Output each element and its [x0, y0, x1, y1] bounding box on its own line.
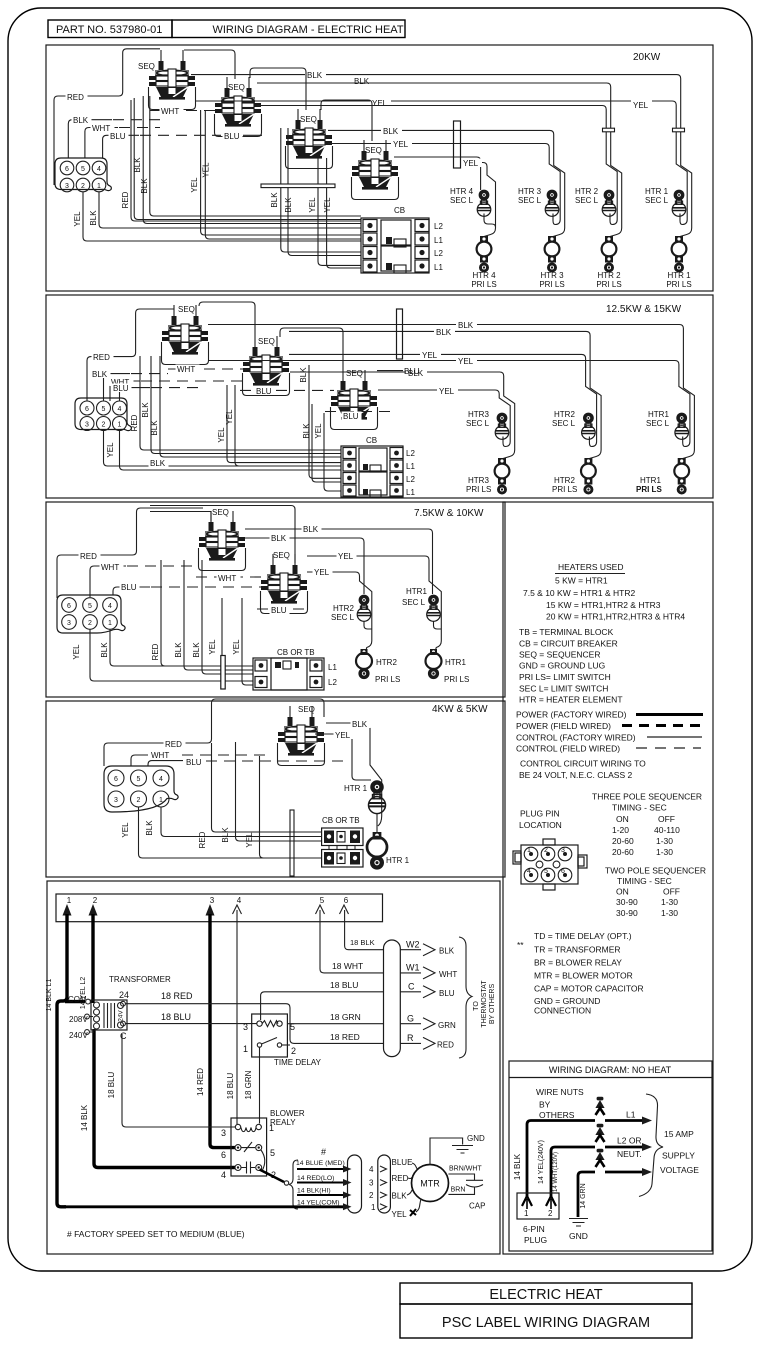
svg-text:PART NO. 537980-01: PART NO. 537980-01 [56, 24, 162, 36]
svg-text:YEL: YEL [422, 351, 438, 360]
wire nut 3 [595, 1149, 604, 1167]
svg-text:18 BLK: 18 BLK [350, 938, 375, 947]
wire YEL pair seq3 down to CB L1 [318, 158, 361, 265]
svg-text:YEL: YEL [439, 387, 455, 396]
svg-text:1-20: 1-20 [612, 825, 629, 835]
svg-text:18 BLU: 18 BLU [107, 1071, 116, 1098]
svg-text:CAP = MOTOR CAPACITOR: CAP = MOTOR CAPACITOR [534, 984, 644, 994]
svg-text:24V: 24V [118, 1010, 125, 1022]
svg-text:20-60: 20-60 [612, 836, 634, 846]
svg-text:BLK: BLK [92, 370, 108, 379]
svg-text:18 BLU: 18 BLU [161, 1012, 191, 1022]
svg-text:HTR1: HTR1 [445, 658, 466, 667]
svg-text:1-30: 1-30 [661, 897, 678, 907]
svg-text:PLUG: PLUG [524, 1235, 547, 1245]
svg-text:HTR1: HTR1 [648, 410, 669, 419]
wire G line TD5 to thermostat [287, 1023, 383, 1025]
svg-text:SEC L: SEC L [466, 419, 490, 428]
svg-text:OTHERS: OTHERS [539, 1110, 575, 1120]
wire seq1 to seq2 cascade [184, 50, 235, 79]
ground symbol [452, 1146, 473, 1154]
svg-text:YEL: YEL [633, 101, 649, 110]
svg-text:GND: GND [569, 1231, 588, 1241]
svg-text:1: 1 [159, 797, 163, 804]
heater HTR1 PRI LS [672, 236, 687, 273]
svg-text:BLK: BLK [392, 1192, 408, 1201]
svg-text:20 KW = HTR1,HTR2,HTR3 & HTR4: 20 KW = HTR1,HTR2,HTR3 & HTR4 [546, 612, 685, 622]
svg-text:CONTROL (FIELD WIRED): CONTROL (FIELD WIRED) [516, 744, 620, 754]
svg-text:YEL: YEL [190, 177, 199, 193]
svg-text:6-PIN: 6-PIN [523, 1224, 545, 1234]
svg-text:SEC L= LIMIT SWITCH: SEC L= LIMIT SWITCH [519, 684, 608, 694]
wire YEL vertical 2 to CB L1 [205, 110, 361, 239]
svg-text:20KW: 20KW [633, 52, 661, 63]
wire YEL vertical pair to CB L1 [201, 110, 361, 235]
svg-text:HTR2: HTR2 [376, 658, 397, 667]
wire BLK from plug pin1 [99, 192, 361, 228]
heater HTR1 PRI LS [367, 832, 387, 870]
svg-text:18 GRN: 18 GRN [244, 1070, 253, 1099]
wire YEL run to HTR1 [195, 101, 687, 225]
svg-text:**: ** [517, 940, 524, 950]
heater HTR2 PRI LS [581, 458, 596, 495]
vertical splice bars [221, 656, 225, 690]
svg-text:18 GRN: 18 GRN [330, 1012, 361, 1022]
svg-text:PRI LS: PRI LS [539, 280, 564, 289]
wire 14 BLK L1 from pin 1 [57, 914, 67, 1207]
svg-text:TB = TERMINAL BLOCK: TB = TERMINAL BLOCK [519, 627, 614, 637]
svg-text:SEQ: SEQ [300, 115, 317, 124]
wire nut 2 [595, 1124, 604, 1142]
plug pin 1 fork [522, 1196, 532, 1206]
svg-text:HTR 1: HTR 1 [386, 856, 410, 865]
wire WHT dashed field [127, 565, 196, 567]
svg-text:4: 4 [369, 1165, 374, 1174]
svg-text:1-30: 1-30 [661, 908, 678, 918]
svg-text:SEQ = SEQUENCER: SEQ = SEQUENCER [519, 650, 600, 660]
wire BLU dashed field [140, 134, 221, 136]
wire RED vertical to CB [212, 743, 322, 832]
wire BLU dashed to SEQ3 [325, 411, 390, 413]
wire L1 from plug pin 1 [527, 1121, 595, 1199]
svg-text:YEL: YEL [323, 197, 332, 213]
svg-text:14 BLUE (MED): 14 BLUE (MED) [296, 1160, 345, 1167]
svg-text:5: 5 [88, 603, 92, 610]
wire BLK run to HTR3 [328, 130, 565, 236]
section 2 box (12.5KW and 15KW) [46, 295, 713, 498]
svg-text:TIMING - SEC: TIMING - SEC [617, 876, 672, 886]
wire BLK from plug pin1 [161, 807, 322, 837]
svg-text:MTR: MTR [420, 1179, 440, 1189]
wire YEL to HTR1 SEC [315, 734, 371, 780]
svg-text:YEL: YEL [392, 1210, 408, 1219]
wire seq3 to seq4 cascade [321, 100, 372, 141]
svg-text:BRN/WHT: BRN/WHT [449, 1166, 482, 1173]
svg-text:HTR 1: HTR 1 [667, 271, 691, 280]
svg-text:BLK: BLK [299, 367, 308, 383]
svg-text:CB OR TB: CB OR TB [322, 816, 360, 825]
svg-text:SEQ: SEQ [346, 369, 363, 378]
wire BLK seq1 to CB 2 [160, 356, 341, 457]
svg-text:14 BLK: 14 BLK [513, 1153, 522, 1180]
wire HTR4 LS hook [484, 214, 496, 228]
svg-text:18 RED: 18 RED [330, 1032, 360, 1042]
wire BLK dashed field [113, 119, 165, 121]
wire seq2 to seq3 cascade [280, 328, 343, 370]
svg-text:PRI LS: PRI LS [375, 675, 400, 684]
svg-text:14 RED: 14 RED [196, 1068, 205, 1096]
svg-text:BY: BY [539, 1100, 551, 1110]
section 3 box (7.5KW and 10KW) [46, 502, 505, 697]
svg-text:PRI LS: PRI LS [596, 280, 621, 289]
svg-text:W2: W2 [406, 940, 420, 950]
svg-text:GND = GROUND: GND = GROUND [534, 996, 600, 1006]
wire BLK run to HTR3 [290, 372, 515, 459]
svg-text:6: 6 [221, 1150, 226, 1160]
svg-text:3: 3 [210, 896, 215, 905]
svg-text:YEL: YEL [121, 822, 130, 838]
svg-text:BRN: BRN [451, 1187, 466, 1194]
svg-text:PRI LS: PRI LS [666, 280, 691, 289]
svg-text:CONTROL CIRCUIT WIRING TO: CONTROL CIRCUIT WIRING TO [520, 759, 646, 769]
svg-text:YEL: YEL [314, 568, 330, 577]
svg-text:SEQ: SEQ [273, 551, 290, 560]
wire YEL from plug pin2 [83, 192, 361, 241]
wire WHT plug pigtail [131, 755, 148, 766]
svg-text:#: # [321, 1147, 326, 1157]
svg-text:18 BLU: 18 BLU [226, 1072, 235, 1099]
wire C line to thermostat [261, 992, 384, 1020]
svg-text:VOLTAGE: VOLTAGE [660, 1165, 699, 1175]
svg-text:HTR2: HTR2 [333, 604, 354, 613]
wire WHT dashed field [119, 127, 160, 129]
svg-text:2: 2 [137, 797, 141, 804]
svg-text:WIRING DIAGRAM: NO HEAT: WIRING DIAGRAM: NO HEAT [549, 1065, 672, 1075]
wire YEL seq2 to CB [227, 385, 341, 463]
svg-text:CB = CIRCUIT BREAKER: CB = CIRCUIT BREAKER [519, 639, 618, 649]
svg-text:HTR 3: HTR 3 [518, 187, 542, 196]
svg-text:BLK: BLK [352, 720, 368, 729]
svg-text:PLUG PIN: PLUG PIN [520, 809, 560, 819]
wire seq1 to seq2 cascade [199, 302, 255, 336]
svg-text:ON: ON [616, 814, 629, 824]
wire BLK run to HTR1 [208, 325, 694, 459]
svg-text:BLK: BLK [458, 321, 474, 330]
wire YEL run to HTR3 [378, 390, 510, 447]
svg-text:14 BLK(HI): 14 BLK(HI) [297, 1187, 331, 1194]
svg-text:CB: CB [366, 436, 377, 445]
wire BLK seq2 right vertical [309, 365, 341, 478]
svg-text:YEL: YEL [208, 639, 217, 655]
wire BLK vertical companion [134, 98, 361, 220]
svg-text:RED: RED [151, 643, 160, 660]
svg-text:1: 1 [527, 847, 531, 854]
svg-text:BLK: BLK [436, 328, 452, 337]
wire BLK seq1 to CB [151, 356, 341, 454]
wire HTR1 LS to PRI [376, 814, 378, 832]
svg-text:HTR 1: HTR 1 [645, 187, 669, 196]
svg-text:1: 1 [269, 1123, 274, 1133]
svg-text:4: 4 [118, 406, 122, 413]
svg-text:YEL: YEL [308, 197, 317, 213]
svg-text:5: 5 [270, 1148, 275, 1158]
wire L2 from plug pin 2 [551, 1147, 595, 1198]
svg-text:YEL: YEL [338, 552, 354, 561]
heater HTR2 PRI LS [356, 649, 372, 679]
svg-text:15 AMP: 15 AMP [664, 1129, 694, 1139]
plug P1 six pin [55, 158, 111, 191]
svg-text:BLOWER: BLOWER [270, 1109, 305, 1118]
svg-text:208V: 208V [69, 1015, 88, 1024]
wire RED vertical to CB [140, 356, 341, 450]
svg-text:TD = TIME DELAY (OPT.): TD = TIME DELAY (OPT.) [534, 931, 632, 941]
svg-text:3: 3 [67, 620, 71, 627]
wire BLK pair seq2 down to CB L2 [281, 128, 361, 252]
wire 14 BLK transformer to relay 4 [94, 1029, 235, 1168]
section 1 box (20KW) [46, 45, 713, 291]
svg-text:HTR2: HTR2 [554, 410, 575, 419]
svg-text:4: 4 [108, 603, 112, 610]
svg-text:4: 4 [97, 166, 101, 173]
header: part number box [48, 20, 172, 38]
svg-text:L1: L1 [406, 488, 415, 497]
svg-text:TIMING - SEC: TIMING - SEC [612, 803, 667, 813]
wire BLK seq1 to CB L2 [143, 96, 361, 224]
wire BLK seq1 to CB [150, 96, 361, 216]
wire BLK plug pigtail [104, 374, 131, 401]
svg-text:BLU: BLU [256, 387, 272, 396]
wire BLK top run to HTR1 [191, 75, 692, 237]
svg-text:6: 6 [67, 603, 71, 610]
svg-text:ELECTRIC HEAT: ELECTRIC HEAT [489, 1287, 602, 1303]
svg-text:GND: GND [467, 1134, 485, 1143]
svg-text:BLK: BLK [100, 642, 109, 658]
wire BLU dashed to SEQ2 [240, 389, 334, 391]
svg-text:BLK: BLK [73, 116, 89, 125]
svg-text:7.5 & 10 KW = HTR1 & HTR2: 7.5 & 10 KW = HTR1 & HTR2 [523, 588, 635, 598]
wire 18 BLU transformer to TD 3 [125, 1023, 256, 1025]
svg-text:WHT: WHT [439, 970, 457, 979]
svg-text:2: 2 [88, 620, 92, 627]
svg-text:YEL: YEL [245, 832, 254, 848]
svg-text:5: 5 [102, 406, 106, 413]
svg-text:14 YEL(240V): 14 YEL(240V) [538, 1140, 545, 1184]
svg-text:2: 2 [369, 1191, 374, 1200]
svg-text:L2: L2 [406, 449, 415, 458]
svg-text:14 GRN: 14 GRN [580, 1183, 587, 1208]
svg-text:1: 1 [108, 620, 112, 627]
svg-text:2: 2 [544, 847, 548, 854]
wiring diagram no heat box [509, 1061, 712, 1251]
wire BLK plug pigtail [68, 120, 112, 158]
wire BLK run to HTR2 [289, 331, 601, 458]
svg-text:W1: W1 [406, 963, 420, 973]
svg-text:BLK: BLK [145, 820, 154, 836]
svg-text:WIRING DIAGRAM - ELECTRIC HEAT: WIRING DIAGRAM - ELECTRIC HEAT [212, 24, 403, 36]
svg-text:WIRE NUTS: WIRE NUTS [536, 1087, 584, 1097]
crossbar HTR2 pair [603, 128, 615, 132]
svg-text:HTR1: HTR1 [640, 476, 661, 485]
svg-text:HTR1: HTR1 [406, 587, 427, 596]
plug P1 six pin [104, 766, 178, 812]
svg-text:HTR 1: HTR 1 [344, 784, 368, 793]
wire 18 WHT pin 5 to W1 [320, 910, 384, 973]
svg-text:1-30: 1-30 [656, 847, 673, 857]
wire BLU plug pigtail [113, 587, 150, 595]
svg-text:PRI LS: PRI LS [636, 485, 662, 494]
svg-text:6: 6 [65, 166, 69, 173]
wire BLU plug pigtail [103, 135, 139, 158]
svg-text:2: 2 [291, 1046, 296, 1056]
svg-text:RED: RED [80, 552, 97, 561]
svg-text:L2: L2 [328, 678, 337, 687]
wire BLK run to HTR2 [257, 83, 622, 237]
time delay TD box [252, 1014, 288, 1057]
motor MTR [412, 1165, 449, 1202]
wire BLK from plug pin1 [110, 630, 253, 667]
svg-text:OFF: OFF [658, 814, 675, 824]
wire WHT dashed to SEQ2 [196, 576, 263, 578]
svg-text:RED: RED [67, 93, 84, 102]
svg-text:HTR = HEATER ELEMENT: HTR = HEATER ELEMENT [519, 695, 623, 705]
wire YEL from plug pin2 [90, 630, 253, 682]
svg-text:5: 5 [81, 166, 85, 173]
svg-text:TRANSFORMER: TRANSFORMER [109, 975, 171, 984]
wire RED vertical to CB [131, 100, 361, 221]
svg-text:30-90: 30-90 [616, 897, 638, 907]
svg-text:BLK: BLK [307, 71, 323, 80]
wire BLK seq down to CB [236, 742, 322, 841]
svg-text:BLU: BLU [224, 132, 240, 141]
svg-text:WHT: WHT [161, 107, 179, 116]
svg-text:BLK: BLK [89, 210, 98, 226]
heater HTR4 PRI LS [477, 236, 492, 273]
svg-text:THERMOSTAT: THERMOSTAT [481, 980, 488, 1028]
bottom title box: ELECTRIC HEAT [400, 1283, 692, 1304]
wire BLK run to HTR2 [245, 538, 364, 594]
svg-text:SEC L: SEC L [575, 196, 599, 205]
svg-text:3: 3 [114, 797, 118, 804]
svg-text:14 RED(LO): 14 RED(LO) [297, 1175, 334, 1182]
wire BLU stub to SEQ2 [243, 134, 262, 136]
svg-text:BLU: BLU [271, 606, 287, 615]
motor connector plug [348, 1155, 362, 1213]
svg-text:YEL: YEL [393, 140, 409, 149]
wire BLK from plug pin1 [120, 431, 342, 470]
wire YEL seq2 down 2 [242, 598, 253, 685]
arrow pin 1 thick [63, 904, 72, 916]
svg-text:RED: RED [121, 191, 130, 208]
wire 18 BLU pin 4 down [236, 910, 238, 1124]
svg-text:BLK: BLK [192, 642, 201, 658]
svg-text:HEATERS USED: HEATERS USED [558, 562, 624, 572]
svg-text:L1: L1 [434, 263, 443, 272]
svg-text:WHT: WHT [92, 124, 110, 133]
svg-text:BLK: BLK [271, 534, 287, 543]
thermostat brace [459, 937, 472, 1058]
svg-text:ON: ON [616, 887, 629, 897]
wire WHT plug pigtail [90, 566, 126, 597]
svg-text:NEUT.: NEUT. [617, 1149, 642, 1159]
bottom title box: PSC LABEL WIRING DIAGRAM [400, 1304, 692, 1338]
svg-text:BLU: BLU [121, 583, 137, 592]
wire seq1 top stub [150, 512, 211, 522]
wire RED plug loop [54, 49, 160, 185]
svg-text:14 YEL L2: 14 YEL L2 [80, 977, 87, 1009]
wire BLU seq3 right [377, 370, 403, 372]
heater HTR1 PRI LS [426, 649, 442, 679]
svg-text:SEQ: SEQ [178, 305, 195, 314]
svg-text:LOCATION: LOCATION [519, 820, 562, 830]
svg-text:3: 3 [561, 847, 565, 854]
svg-text:6: 6 [114, 776, 118, 783]
TD heater coil [257, 1021, 262, 1026]
svg-text:14 WHT(120V): 14 WHT(120V) [553, 1152, 559, 1192]
wire 18 BLK pin 6 to W2 [345, 910, 384, 950]
svg-text:SEQ: SEQ [228, 83, 245, 92]
wire seq2 top loop [150, 506, 295, 564]
svg-text:3: 3 [221, 1128, 226, 1138]
wire BLU dashed field [151, 387, 200, 389]
svg-text:TIME DELAY: TIME DELAY [274, 1058, 322, 1067]
svg-text:BLK: BLK [150, 420, 159, 436]
svg-text:1: 1 [524, 1209, 529, 1218]
svg-text:CB: CB [394, 206, 405, 215]
wire YEL run to HTR1 [208, 361, 690, 447]
svg-text:HTR 4: HTR 4 [450, 187, 474, 196]
vertical splice bar [290, 810, 294, 876]
svg-text:BLK: BLK [270, 192, 279, 208]
relay contact 6-5 [235, 1145, 241, 1151]
svg-text:TWO POLE SEQUENCER: TWO POLE SEQUENCER [605, 866, 706, 876]
header: wiring diagram title box [172, 20, 405, 38]
svg-text:BLUE: BLUE [392, 1158, 413, 1167]
heater HTR2 PRI LS [602, 236, 617, 273]
svg-text:5 KW = HTR1: 5 KW = HTR1 [555, 576, 608, 586]
svg-text:C: C [408, 982, 415, 992]
svg-text:30-90: 30-90 [616, 908, 638, 918]
wire WHT plug pigtail [110, 381, 140, 401]
svg-text:CONNECTION: CONNECTION [534, 1006, 591, 1016]
svg-text:R: R [407, 1033, 414, 1043]
wire nut 1 [595, 1097, 604, 1115]
plug P1 six pin [75, 398, 131, 431]
wire HTR1 LS hook [434, 621, 442, 629]
svg-text:4KW & 5KW: 4KW & 5KW [432, 704, 488, 715]
wire YEL run to HTR2 [289, 354, 597, 446]
svg-text:4: 4 [159, 776, 163, 783]
ground symbol GND [569, 1219, 588, 1227]
svg-text:L1: L1 [406, 462, 415, 471]
section 5 box (PSC blower section) [47, 881, 500, 1254]
svg-text:RED: RED [437, 1041, 454, 1050]
svg-text:TO: TO [473, 1001, 480, 1011]
wire YEL run to HTR1 [307, 556, 441, 629]
plug bar box [56, 894, 383, 922]
svg-text:BLU: BLU [343, 412, 359, 421]
svg-text:POWER (FACTORY WIRED): POWER (FACTORY WIRED) [516, 710, 627, 720]
svg-text:YEL: YEL [72, 644, 81, 660]
svg-text:BLK: BLK [174, 642, 183, 658]
wire seq2 to seq3 cascade [250, 68, 306, 110]
svg-text:GRN: GRN [438, 1021, 456, 1030]
wire YEL run to HTR3 [328, 144, 560, 225]
svg-text:BLU: BLU [439, 989, 455, 998]
svg-text:15 KW = HTR1,HTR2 & HTR3: 15 KW = HTR1,HTR2 & HTR3 [546, 600, 661, 610]
ground wire from motor [430, 1138, 463, 1165]
relay arc 5 to 2 [261, 1150, 265, 1171]
svg-text:POWER (FIELD WIRED): POWER (FIELD WIRED) [516, 721, 611, 731]
